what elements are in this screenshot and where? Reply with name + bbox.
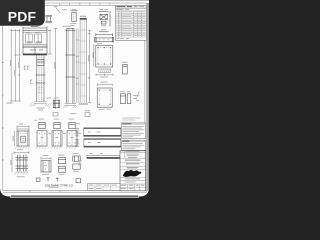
loose note lines above box bbox=[122, 118, 140, 121]
lower plate plan (x97-112 y88-107) bbox=[97, 84, 112, 108]
elevation view 1: dim text specks bbox=[7, 60, 20, 104]
small dim stack left of bar3 bbox=[78, 160, 81, 165]
top edge shadow bbox=[44, 0, 149, 2]
column 2 base bbox=[65, 104, 77, 106]
right edge shadow bbox=[147, 3, 149, 191]
PDF badge bbox=[0, 0, 45, 26]
bottom detail E2 bbox=[41, 157, 51, 160]
ground hatch left of base bbox=[30, 103, 52, 106]
elevation view 2: overall height dim line bbox=[54, 28, 57, 109]
plate plan dims bbox=[93, 44, 95, 67]
flat plate detail (y34-43) bbox=[95, 32, 114, 42]
bottom detail E4 bbox=[73, 156, 80, 169]
elevation view 1: top box assembly bbox=[23, 27, 47, 54]
title block bbox=[120, 151, 146, 191]
base dim text bbox=[37, 98, 52, 111]
plate bar 1 bbox=[84, 128, 121, 137]
section detail D1 (x17-29 y124-148) bbox=[14, 125, 29, 146]
section detail D2 (x37-47) bbox=[37, 122, 47, 146]
svg-text:PDF: PDF bbox=[8, 9, 37, 25]
notes box 2 bbox=[122, 140, 146, 150]
base plate plan view (x96-113 y44-67) bbox=[96, 45, 113, 67]
dim marks left of bars bbox=[75, 128, 79, 147]
drawing frame bottom band bbox=[3, 190, 147, 192]
plate bar 2 bbox=[84, 139, 121, 148]
drawing frame left line bbox=[2, 3, 4, 190]
small dim text top mid bbox=[62, 8, 67, 11]
two small plates right (x120-131 y92-104) bbox=[120, 94, 130, 104]
bottom-left small table bbox=[88, 184, 121, 191]
column 2 text specks bbox=[63, 26, 79, 79]
leader arrow top bbox=[56, 8, 60, 14]
bottom edge shadow bbox=[11, 195, 138, 196]
page bbox=[0, 0, 149, 197]
revision table row text bbox=[116, 11, 145, 38]
header text specks bbox=[117, 6, 126, 7]
elevation view 1: dark sole bar bbox=[23, 54, 47, 56]
revision table bbox=[116, 5, 147, 40]
elevation view 1: right dim line of box bbox=[48, 30, 52, 55]
plate bar 3 (thin) bbox=[87, 153, 120, 159]
small section detail top-left (next to badge) bbox=[46, 15, 53, 22]
dim chain right of column 2 bbox=[76, 29, 80, 104]
tiny anchor mark right margin bbox=[136, 92, 140, 100]
elevation view 2: column bbox=[65, 29, 75, 104]
narrow plate edge (x122 y64-74) bbox=[123, 64, 128, 74]
tiny plate near bottom text bbox=[76, 179, 81, 183]
company logo bbox=[123, 170, 141, 177]
anchor detail left of column 2 base bbox=[53, 100, 60, 108]
elevation view 1: left dimension lines bbox=[10, 29, 21, 102]
bottom detail E1: column section w/ flanges bbox=[12, 151, 29, 172]
weld symbols under box bbox=[24, 66, 29, 69]
weld symbol mid shaft bbox=[30, 80, 32, 83]
svg-text:COLONNE TYPE 1-2: COLONNE TYPE 1-2 bbox=[45, 183, 74, 187]
small marks above title bbox=[36, 177, 58, 181]
bottom detail E3: two stacked plates bbox=[58, 158, 65, 173]
shaft bolt marks bbox=[38, 87, 42, 94]
elevation view 1 text specks bbox=[26, 26, 43, 50]
drawing frame right lines bbox=[145, 3, 147, 192]
section detail D3 (x52-62) bbox=[52, 122, 62, 146]
drawing frame top band bbox=[3, 3, 147, 5]
column 1 base plate bbox=[34, 101, 47, 103]
brace detail (x100 y10-27) bbox=[99, 11, 110, 27]
small row markers above details bbox=[53, 110, 90, 116]
ladder column base bbox=[79, 103, 89, 105]
plate edge view hatched bar bbox=[99, 69, 111, 72]
notes box 1 bbox=[122, 123, 146, 139]
dim line right of ladder bbox=[88, 30, 91, 103]
ladder column (view 3) bbox=[80, 18, 87, 20]
elevation view 1: column shaft bbox=[36, 55, 46, 101]
small plate detail top (x72) bbox=[71, 11, 78, 22]
section detail D4 (x67-77) bbox=[67, 122, 77, 146]
backdrop bbox=[0, 0, 149, 198]
